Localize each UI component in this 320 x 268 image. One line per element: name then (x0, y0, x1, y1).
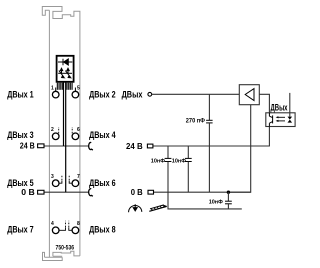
svg-text:ДВых: ДВых (271, 102, 288, 113)
dashed stub terminal 2 (58, 127, 60, 133)
svg-text:10нФ: 10нФ (209, 200, 223, 206)
terminal 2 (52, 133, 59, 140)
svg-text:10нФ: 10нФ (172, 159, 186, 165)
terminal square 0V right (148, 190, 154, 194)
LED indicator box (266, 113, 295, 127)
svg-text:4: 4 (51, 221, 54, 227)
branch wire down to 270pF (208, 94, 210, 120)
svg-text:7: 7 (77, 174, 80, 180)
capacitor C1 10nF (167, 146, 169, 158)
svg-text:24 В: 24 В (126, 141, 143, 151)
input wire to comparator (152, 93, 240, 95)
terminal 8 (72, 227, 79, 234)
comparator output wire (259, 94, 269, 113)
stub terminal 3 (59, 181, 62, 184)
svg-text:24 В: 24 В (20, 140, 35, 150)
LED element (288, 117, 293, 120)
stub terminal 8 (69, 228, 72, 231)
svg-text:ДВых 7: ДВых 7 (7, 224, 34, 235)
svg-text:ДВых 8: ДВых 8 (89, 224, 116, 235)
svg-text:ДВых 4: ДВых 4 (89, 130, 116, 141)
svg-text:270 пФ: 270 пФ (186, 118, 206, 125)
wire bundle below function box (57, 82, 72, 90)
power jumper hook (24V) (89, 142, 93, 150)
module outline (terminal block contour) (42, 7, 80, 261)
terminal square 24V right (147, 144, 153, 148)
wire below 270pF to 0V rail (208, 123, 210, 192)
24V bus wire (63, 82, 65, 146)
dashed stub terminal 6 (71, 127, 73, 133)
diode D1 inside function box (58, 59, 72, 65)
svg-text:10нФ: 10нФ (151, 159, 165, 165)
comparator bottom wire to 0V node (228, 105, 250, 193)
svg-text:750-536: 750-536 (56, 246, 75, 252)
svg-text:5: 5 (77, 85, 80, 91)
svg-text:0 В: 0 В (131, 187, 143, 197)
comparator U2 (239, 85, 259, 105)
svg-text:8: 8 (77, 221, 80, 227)
stub terminal 7 (69, 181, 72, 184)
capacitor 270pF (206, 120, 213, 123)
svg-text:ДВых 1: ДВых 1 (7, 89, 34, 100)
light pipe symbol (269, 113, 272, 127)
0V field wire (left) (44, 191, 88, 193)
terminal 5 (72, 91, 79, 98)
terminal 3 (52, 180, 59, 187)
svg-text:ДВых 6: ДВых 6 (89, 178, 116, 189)
terminal square 24V left (38, 144, 44, 148)
svg-text:6: 6 (77, 127, 80, 133)
junction node dot (227, 191, 230, 194)
function box U1 (57, 56, 74, 82)
svg-text:0 В: 0 В (21, 187, 35, 197)
terminal 7 (72, 180, 79, 187)
emission arrows (276, 116, 285, 122)
wire stub to terminal 5 (74, 88, 76, 92)
terminal 1 (52, 91, 59, 98)
capacitor C2 10nF (187, 146, 189, 158)
terminal 4 (52, 227, 59, 234)
0V rail right (154, 191, 251, 193)
svg-text:ДВых: ДВых (122, 89, 143, 100)
svg-text:2: 2 (51, 127, 54, 133)
svg-text:ДВых 2: ДВых 2 (89, 89, 116, 100)
ground wire (168, 192, 242, 209)
svg-text:3: 3 (51, 174, 54, 180)
stub terminal 4 (59, 228, 66, 231)
protection symbols inside function box (58, 68, 72, 78)
chassis ground symbol (149, 205, 167, 212)
equipotential bonding symbol (129, 204, 142, 212)
terminal square 0V left (38, 190, 44, 194)
LED stub wire from logic (289, 93, 291, 117)
terminal 6 (72, 133, 79, 140)
24V field wire (left) (44, 145, 88, 147)
wire below LED box down to 24V rail (268, 127, 270, 147)
svg-text:ДВых 3: ДВых 3 (7, 130, 34, 141)
input terminal circle (148, 92, 152, 96)
capacitor C3 10nF (227, 192, 229, 201)
power jumper hook (0V) (89, 189, 93, 197)
0V bus wire (65, 82, 67, 192)
svg-text:1: 1 (51, 85, 54, 91)
wire stub to terminal 1 (55, 88, 57, 92)
24V rail right (153, 145, 270, 147)
